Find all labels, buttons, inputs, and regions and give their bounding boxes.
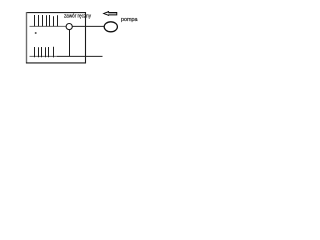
- tank box right edge: [85, 12, 87, 63]
- tank box bottom edge: [26, 62, 86, 64]
- tank box left edge: [26, 12, 28, 63]
- flow arrow (block arrow pointing left): [104, 12, 117, 16]
- wire: top pipe line from tank to pump: [30, 25, 67, 27]
- wire: bottom pipe line: [30, 55, 58, 57]
- wire: bottom pipe extension: [57, 55, 103, 57]
- wire: pipe from valve to pump: [72, 25, 105, 27]
- heater comb bottom ticks: [35, 47, 54, 58]
- svg-text:pompa: pompa: [121, 17, 138, 23]
- node dot: [35, 32, 37, 34]
- svg-text:zawór ręczny: zawór ręczny: [64, 14, 91, 20]
- heater comb top ticks: [35, 15, 58, 26]
- wire: valve drop line: [69, 30, 71, 57]
- valve V1 circle: [66, 24, 72, 30]
- flow arrow head highlight: [105, 13, 108, 15]
- pump P1 ellipse: [104, 22, 117, 32]
- tank box top edge: [26, 12, 86, 14]
